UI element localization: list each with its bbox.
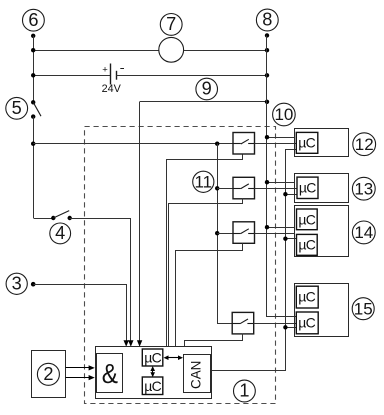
callout circle 6: [23, 9, 45, 31]
svg-text:14: 14: [354, 223, 373, 242]
relay K3 output wire to ECU3: [255, 233, 295, 235]
central controller box: [96, 347, 212, 399]
node dot bus ECU3: [265, 225, 269, 229]
switch 5 (open, main switch): [31, 100, 41, 119]
wire feed relay3: [217, 233, 233, 235]
relay K4 output wire to ECU4: [254, 323, 297, 325]
node dot CAN ECU3: [283, 237, 287, 241]
arrow box2 to gate upper: [66, 367, 91, 369]
wire riser x217 feeding relays 2,3,4: [218, 144, 233, 324]
callout circle 5: [6, 97, 28, 119]
ECU4 outer box: [295, 284, 349, 337]
arrow between controller uC boxes: [152, 369, 154, 375]
ECU3 uC box lower: [297, 234, 318, 255]
CAN pin wire ECU2: [285, 194, 297, 196]
relay K4 contact box: [232, 312, 254, 334]
node dot battery west: [31, 73, 35, 77]
ECU2 outer box: [295, 174, 349, 203]
callout circle 1: [234, 380, 256, 402]
wire 9 horizontal: [140, 101, 267, 103]
node dot at relay feed branch: [31, 142, 35, 146]
ECU3 outer box: [295, 206, 349, 257]
node dot wire9 east on bus: [265, 100, 269, 104]
node dot below circle 8: [265, 33, 269, 37]
relay K2 output wire to uC: [255, 188, 298, 190]
wire relay feed row (to relay 1): [33, 143, 233, 145]
bus pin wire ECU1: [267, 137, 294, 139]
relay K1 contact box: [233, 133, 255, 155]
node dot bus ECU2: [265, 180, 269, 184]
svg-text:8: 8: [262, 10, 272, 30]
battery 24V plates: [111, 64, 117, 85]
node dot riser 217 top: [215, 142, 219, 146]
wire 9 riser down to gate with arrowhead: [139, 102, 141, 342]
callout circle 4: [50, 223, 71, 244]
callout circle 3: [6, 273, 27, 294]
node dot CAN ECU2: [283, 192, 287, 196]
callout circle 12: [353, 133, 376, 156]
svg-text:CAN: CAN: [188, 361, 203, 389]
relay K1 output wire to uC: [255, 143, 297, 145]
AND gate box U1: [97, 354, 123, 393]
ECU4 uC box upper: [296, 286, 318, 308]
power bus vertical x267 with corner to ECU4: [267, 36, 297, 317]
node dot below circle 6: [31, 34, 35, 38]
wire 3 to gate riser with arrowhead: [34, 285, 127, 342]
svg-text:10: 10: [274, 105, 293, 124]
node dot CAN ECU4: [283, 325, 287, 329]
relay K2 bottom tap to controller: [169, 199, 243, 347]
node dot lamp west: [31, 48, 35, 52]
CAN box: [184, 355, 211, 393]
svg-text:3: 3: [12, 273, 22, 293]
wire switch4 to gate riser with arrowhead: [70, 219, 131, 342]
node dot start of wire 3: [31, 282, 36, 287]
wire battery row right: [116, 75, 267, 77]
svg-text:11: 11: [194, 172, 212, 191]
svg-text:15: 15: [354, 299, 373, 318]
CAN riser x285.4 from ECU1 down to CAN box: [211, 150, 297, 371]
bus pin wire ECU2: [267, 182, 294, 184]
callout circle 13: [352, 177, 375, 200]
svg-text:13: 13: [354, 179, 373, 198]
node dot lamp east on bus: [265, 48, 269, 52]
svg-text:9: 9: [202, 79, 212, 99]
wire feed relay2: [217, 188, 233, 190]
svg-text:6: 6: [28, 10, 38, 30]
controller uC box bottom: [142, 377, 163, 395]
relay K1 bottom tap to controller: [167, 155, 243, 347]
wire from switch5 corner to switch 4: [34, 218, 54, 220]
callout circle 9: [196, 78, 218, 100]
callout circle 14: [352, 221, 375, 244]
lamp L1 (indicator circle): [159, 37, 184, 62]
svg-text:2: 2: [43, 364, 53, 384]
callout circle 8: [256, 9, 278, 31]
node dot feed relay2: [215, 186, 219, 190]
svg-text:24V: 24V: [102, 83, 122, 95]
wire left bus vertical (6 down to switch 5): [33, 36, 35, 103]
svg-text:4: 4: [55, 223, 65, 243]
ECU1 uC box: [296, 132, 318, 153]
wire left bus below switch 5: [33, 117, 35, 218]
node dot bus ECU1: [265, 135, 269, 139]
CAN pin wire ECU4: [285, 327, 296, 329]
switch 4 (open): [51, 211, 72, 221]
wire battery row left: [33, 75, 111, 77]
svg-text:7: 7: [166, 14, 176, 34]
arrow box2 to gate lower: [66, 377, 91, 379]
callout circle 10: [273, 103, 296, 126]
input box with circle 2: [32, 351, 66, 398]
arrow uC to CAN: [167, 357, 181, 359]
relay K3 bottom tap to controller: [176, 244, 243, 347]
ECU3 uC box upper: [297, 209, 318, 230]
node dot feed relay3: [215, 231, 219, 235]
svg-text:&: &: [102, 358, 118, 389]
svg-text:5: 5: [12, 98, 22, 118]
bus pin wire ECU3: [267, 227, 294, 229]
wire lamp row right: [184, 50, 267, 52]
controller uC box top: [142, 349, 163, 366]
callout circle 7: [160, 14, 182, 36]
ECU1 outer box: [295, 129, 349, 157]
svg-text:+: +: [102, 64, 108, 75]
svg-text:12: 12: [355, 135, 374, 154]
callout circle 15: [352, 298, 374, 320]
relay K4 bottom tap to CAN area: [185, 334, 243, 347]
svg-text:1: 1: [239, 381, 249, 401]
relay K2 contact box: [233, 177, 255, 199]
relay K3 contact box: [233, 222, 255, 244]
battery minus label: [120, 68, 124, 70]
CAN pin wire ECU3: [285, 238, 296, 240]
callout circle 11: [193, 171, 214, 192]
ECU2 uC box: [297, 177, 318, 198]
node dot battery east on bus: [265, 73, 269, 77]
dashed system boundary box: [85, 127, 276, 404]
ECU4 uC box lower: [296, 312, 318, 334]
wire lamp row left: [33, 50, 159, 52]
